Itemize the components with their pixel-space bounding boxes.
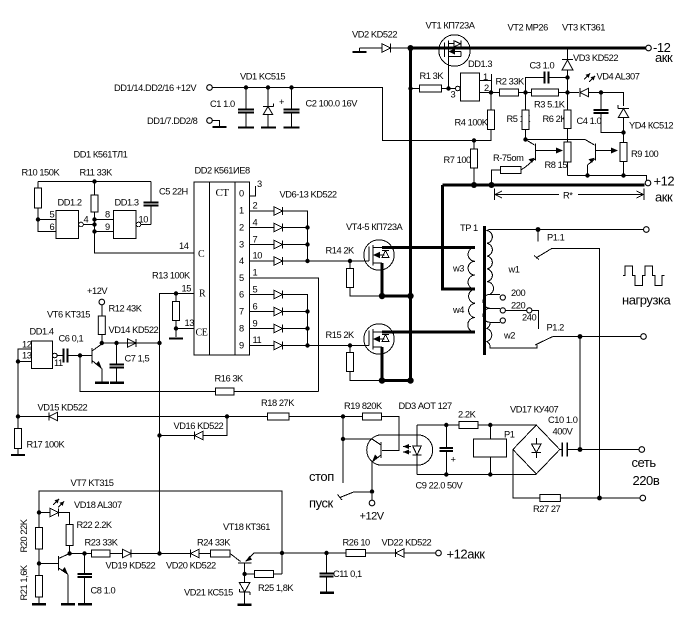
svg-text:R19 820K: R19 820K — [344, 401, 383, 411]
wire LED top to C9 node — [417, 424, 446, 426]
svg-text:11: 11 — [253, 335, 262, 345]
svg-text:VT2 MP26: VT2 MP26 — [508, 23, 549, 33]
svg-text:акк: акк — [655, 50, 673, 65]
wire emitter node to C11 — [282, 552, 327, 554]
svg-text:VT6 KT315: VT6 KT315 — [47, 310, 90, 320]
svg-text:VD14 KD522: VD14 KD522 — [109, 325, 159, 335]
svg-text:10: 10 — [253, 251, 263, 261]
svg-text:VD1 KC515: VD1 KC515 — [240, 72, 285, 82]
svg-text:VT4-5 КП723А: VT4-5 КП723А — [346, 222, 404, 232]
svg-text:0: 0 — [239, 189, 244, 199]
wire VT5 drain thick — [382, 331, 475, 334]
ground — [261, 126, 276, 128]
node +12 акк terminal — [645, 180, 651, 186]
svg-text:+12V: +12V — [360, 511, 385, 523]
ground — [78, 603, 92, 605]
svg-text:1: 1 — [239, 206, 244, 216]
opto transistor — [380, 442, 382, 458]
svg-text:стоп: стоп — [309, 469, 334, 484]
svg-text:R26 10: R26 10 — [343, 538, 371, 548]
svg-text:VD2 KD522: VD2 KD522 — [352, 30, 397, 40]
svg-text:YD4 КС512: YD4 КС512 — [629, 121, 673, 131]
ground — [169, 337, 183, 339]
svg-text:CT: CT — [216, 187, 230, 199]
wire -12 thick rail — [409, 47, 646, 50]
wire VT5 source thick — [382, 347, 412, 381]
wire R8 R9 bottom rail — [568, 176, 647, 182]
svg-text:6: 6 — [50, 222, 55, 232]
svg-text:3: 3 — [451, 90, 456, 100]
svg-text:R24 33K: R24 33K — [197, 538, 231, 548]
svg-text:DD1.3: DD1.3 — [115, 198, 139, 208]
opto LED — [416, 425, 418, 446]
wire emitter row — [254, 552, 282, 554]
svg-text:C5 22H: C5 22H — [159, 187, 188, 197]
wire terminal to ground — [212, 121, 219, 127]
svg-text:R11 33K: R11 33K — [80, 168, 114, 178]
svg-text:R2 33K: R2 33K — [496, 77, 526, 87]
svg-text:C6 0,1: C6 0,1 — [59, 334, 84, 344]
wire стоп line — [342, 417, 344, 484]
diode row7 — [250, 311, 275, 313]
diode row8 — [250, 328, 275, 330]
svg-text:нагрузка: нагрузка — [622, 293, 672, 308]
svg-text:R*: R* — [563, 191, 573, 201]
node +12акк terminal — [436, 550, 442, 556]
wire R13 column — [160, 294, 195, 554]
wire VT1 gate down — [448, 59, 450, 89]
node +12V supply terminal — [207, 85, 213, 91]
svg-text:P1: P1 — [504, 430, 515, 440]
svg-text:7: 7 — [239, 307, 244, 317]
svg-text:VD16 KD522: VD16 KD522 — [174, 421, 224, 431]
svg-text:R17 100K: R17 100K — [27, 440, 66, 450]
ground — [95, 382, 109, 384]
svg-text:VD22 KD522: VD22 KD522 — [382, 538, 432, 548]
svg-text:13: 13 — [185, 318, 195, 328]
svg-text:13: 13 — [22, 351, 32, 361]
svg-text:TP 1: TP 1 — [460, 223, 478, 233]
wire R* dimension — [494, 189, 496, 201]
svg-text:C4 1.0: C4 1.0 — [577, 116, 602, 126]
svg-text:+: + — [451, 455, 456, 465]
wire VT4 source thick — [382, 263, 412, 296]
transistor VT6 — [91, 348, 93, 364]
wire thick vertical bus — [409, 47, 412, 381]
wire VT4 drain thick — [382, 246, 475, 249]
svg-text:5: 5 — [50, 210, 55, 220]
svg-text:+12V: +12V — [87, 286, 108, 296]
svg-text:9: 9 — [105, 222, 110, 232]
svg-text:12: 12 — [22, 340, 32, 350]
transistor VT5 — [364, 324, 394, 354]
svg-text:R12 43K: R12 43K — [109, 304, 143, 314]
svg-text:R10 150K: R10 150K — [22, 168, 61, 178]
svg-text:P1.1: P1.1 — [547, 233, 565, 243]
svg-text:R13 100K: R13 100K — [152, 271, 191, 281]
load waveform icon — [623, 266, 664, 286]
svg-text:R3 5.1K: R3 5.1K — [534, 100, 566, 110]
svg-text:акк: акк — [655, 190, 673, 205]
svg-text:DD1/14.DD2/16 +12V: DD1/14.DD2/16 +12V — [114, 83, 197, 93]
svg-text:8: 8 — [105, 210, 110, 220]
svg-text:С11 0,1: С11 0,1 — [333, 569, 362, 579]
ground — [110, 382, 124, 384]
svg-text:VD18 AL307: VD18 AL307 — [74, 500, 122, 510]
svg-text:R18 27K: R18 27K — [261, 398, 295, 408]
svg-text:R16 3K: R16 3K — [215, 374, 245, 384]
wire w2 bottom — [491, 345, 537, 349]
wire C6 node down to R16 — [80, 356, 216, 392]
svg-text:w3: w3 — [452, 264, 464, 274]
svg-text:200: 200 — [511, 288, 525, 298]
svg-text:R25 1,8K: R25 1,8K — [258, 583, 294, 593]
svg-text:3: 3 — [239, 240, 244, 250]
svg-text:400V: 400V — [553, 427, 574, 437]
svg-text:R21 1,6K: R21 1,6K — [19, 564, 29, 600]
wire gate row VT4 — [308, 260, 365, 262]
ground — [11, 454, 25, 456]
wire to zener — [601, 93, 624, 107]
wire R10 to inputs — [36, 217, 40, 221]
diode row3 — [250, 244, 275, 246]
wire DD1.2 out — [83, 224, 94, 226]
svg-text:2: 2 — [253, 201, 258, 211]
svg-text:DD1.2: DD1.2 — [58, 198, 82, 208]
svg-text:CE: CE — [196, 328, 208, 339]
node нагрузка top terminal — [644, 227, 650, 233]
node +12V terminal — [369, 500, 375, 506]
svg-text:C2 100.0 16V: C2 100.0 16V — [306, 99, 359, 109]
svg-text:VD3 KD522: VD3 KD522 — [573, 53, 618, 63]
svg-text:14: 14 — [179, 241, 189, 251]
svg-text:10: 10 — [139, 215, 149, 225]
ground — [32, 603, 46, 605]
svg-text:VT1 КП723А: VT1 КП723А — [426, 21, 476, 31]
wire DD1.3 out to C5 — [141, 224, 151, 226]
svg-text:C1 1.0: C1 1.0 — [210, 99, 235, 109]
wire gate row VT5 — [308, 345, 365, 347]
svg-text:9: 9 — [239, 341, 244, 351]
svg-text:+12: +12 — [654, 174, 675, 189]
svg-text:2: 2 — [484, 83, 489, 93]
ground — [284, 126, 300, 128]
wire base line VT2 VT3 — [526, 139, 586, 141]
svg-text:C9 22.0 50V: C9 22.0 50V — [416, 481, 464, 491]
svg-text:R9 100: R9 100 — [631, 149, 659, 159]
pin 3 stub out0 — [250, 186, 256, 196]
svg-text:C3 1.0: C3 1.0 — [530, 61, 555, 71]
svg-text:R20 22K: R20 22K — [19, 518, 29, 552]
wire center tap thick — [443, 185, 476, 289]
svg-text:4: 4 — [84, 215, 89, 225]
wire +12V rail to caps — [212, 88, 491, 141]
svg-text:R4 100K: R4 100K — [455, 118, 489, 128]
svg-text:2.2K: 2.2K — [458, 410, 477, 420]
wire +12 thick rail — [443, 184, 645, 187]
node сеть bottom terminal — [640, 495, 646, 501]
svg-text:R15 2K: R15 2K — [326, 330, 356, 340]
svg-text:R22 2.2K: R22 2.2K — [77, 520, 113, 530]
svg-text:сеть: сеть — [632, 455, 657, 470]
svg-text:R27 27: R27 27 — [533, 504, 561, 514]
node сеть top terminal — [639, 447, 645, 453]
svg-text:VD21 КС515: VD21 КС515 — [184, 588, 233, 598]
svg-text:240: 240 — [522, 313, 536, 323]
transistor VT4 — [364, 240, 394, 270]
svg-text:C7 1,5: C7 1,5 — [125, 354, 150, 364]
svg-text:C10 1.0: C10 1.0 — [548, 415, 578, 425]
svg-text:6: 6 — [253, 302, 258, 312]
svg-text:w4: w4 — [452, 305, 464, 315]
svg-text:1: 1 — [253, 268, 258, 278]
svg-text:C8 1.0: C8 1.0 — [91, 586, 116, 596]
wire base row — [70, 553, 92, 555]
svg-text:2: 2 — [239, 223, 244, 233]
svg-text:5: 5 — [239, 273, 244, 283]
svg-text:DD1/7.DD2/8: DD1/7.DD2/8 — [147, 116, 198, 126]
svg-text:VD15 KD522: VD15 KD522 — [38, 403, 88, 413]
svg-text:3: 3 — [257, 179, 262, 189]
svg-text:7: 7 — [253, 235, 258, 245]
svg-text:R-75om: R-75om — [493, 153, 524, 163]
svg-text:4: 4 — [239, 256, 244, 266]
svg-text:R14 2K: R14 2K — [326, 246, 356, 256]
svg-text:1: 1 — [483, 72, 488, 82]
svg-text:R1 3K: R1 3K — [420, 71, 445, 81]
svg-text:VD4 AL307: VD4 AL307 — [597, 72, 640, 82]
ground — [213, 126, 227, 128]
svg-text:11: 11 — [54, 358, 63, 368]
svg-text:9: 9 — [253, 319, 258, 329]
svg-text:+12акк: +12акк — [447, 547, 486, 562]
svg-text:VT3 KT361: VT3 KT361 — [562, 23, 605, 33]
diode row2 — [250, 227, 275, 229]
wire collector row — [102, 342, 160, 344]
ground — [238, 126, 254, 128]
svg-text:R: R — [199, 289, 206, 300]
svg-text:220: 220 — [511, 301, 525, 311]
svg-text:VT18 КТ361: VT18 КТ361 — [223, 522, 270, 532]
svg-text:C: C — [198, 249, 205, 260]
svg-text:VD19 KD522: VD19 KD522 — [106, 561, 156, 571]
diode row4 — [250, 260, 275, 262]
node DD1/7 ground terminal — [207, 118, 213, 124]
transistor VT7 — [58, 556, 60, 571]
svg-text:DD1.4: DD1.4 — [30, 327, 54, 337]
svg-text:5: 5 — [253, 285, 258, 295]
svg-text:w2: w2 — [503, 331, 515, 341]
svg-text:VD20 KD522: VD20 KD522 — [166, 561, 216, 571]
svg-text:6: 6 — [239, 290, 244, 300]
svg-text:DD1 К561ТЛ1: DD1 К561ТЛ1 — [74, 150, 128, 160]
svg-text:DD3 АОТ 127: DD3 АОТ 127 — [399, 401, 453, 411]
svg-text:P1.2: P1.2 — [547, 323, 565, 333]
svg-text:VD17 КУ407: VD17 КУ407 — [510, 405, 559, 415]
svg-text:VT7 KT315: VT7 KT315 — [71, 478, 114, 488]
svg-text:DD2 К561ИЕ8: DD2 К561ИЕ8 — [195, 166, 250, 176]
wire LED bottom rail — [417, 474, 536, 476]
svg-text:15: 15 — [182, 284, 192, 294]
svg-text:пуск: пуск — [309, 496, 334, 511]
svg-text:R23 33K: R23 33K — [85, 538, 119, 548]
diode row9 — [250, 345, 275, 347]
ground — [320, 592, 334, 594]
node нагрузка bottom terminal — [641, 334, 647, 340]
ground — [61, 603, 75, 605]
diode row6 — [250, 294, 275, 296]
node -12 акк terminal — [646, 45, 652, 51]
svg-text:220в: 220в — [633, 473, 660, 488]
wire to DD2 pin14 — [95, 232, 195, 254]
wire P1.2 output down — [579, 337, 581, 450]
ground — [238, 604, 252, 606]
wire w1 top — [494, 229, 644, 231]
svg-text:R7 100: R7 100 — [444, 155, 472, 165]
svg-text:VD6-13 KD522: VD6-13 KD522 — [280, 190, 337, 200]
svg-text:8: 8 — [239, 324, 244, 334]
wire VT7 top rail — [39, 491, 282, 574]
svg-text:w1: w1 — [508, 265, 520, 275]
svg-text:DD1.3: DD1.3 — [468, 59, 492, 69]
svg-text:+: + — [279, 97, 284, 107]
svg-text:4: 4 — [253, 218, 258, 228]
wire oscillator top rail — [38, 181, 151, 183]
diode row1 — [250, 210, 275, 212]
wire pin1 row5 — [250, 278, 319, 392]
